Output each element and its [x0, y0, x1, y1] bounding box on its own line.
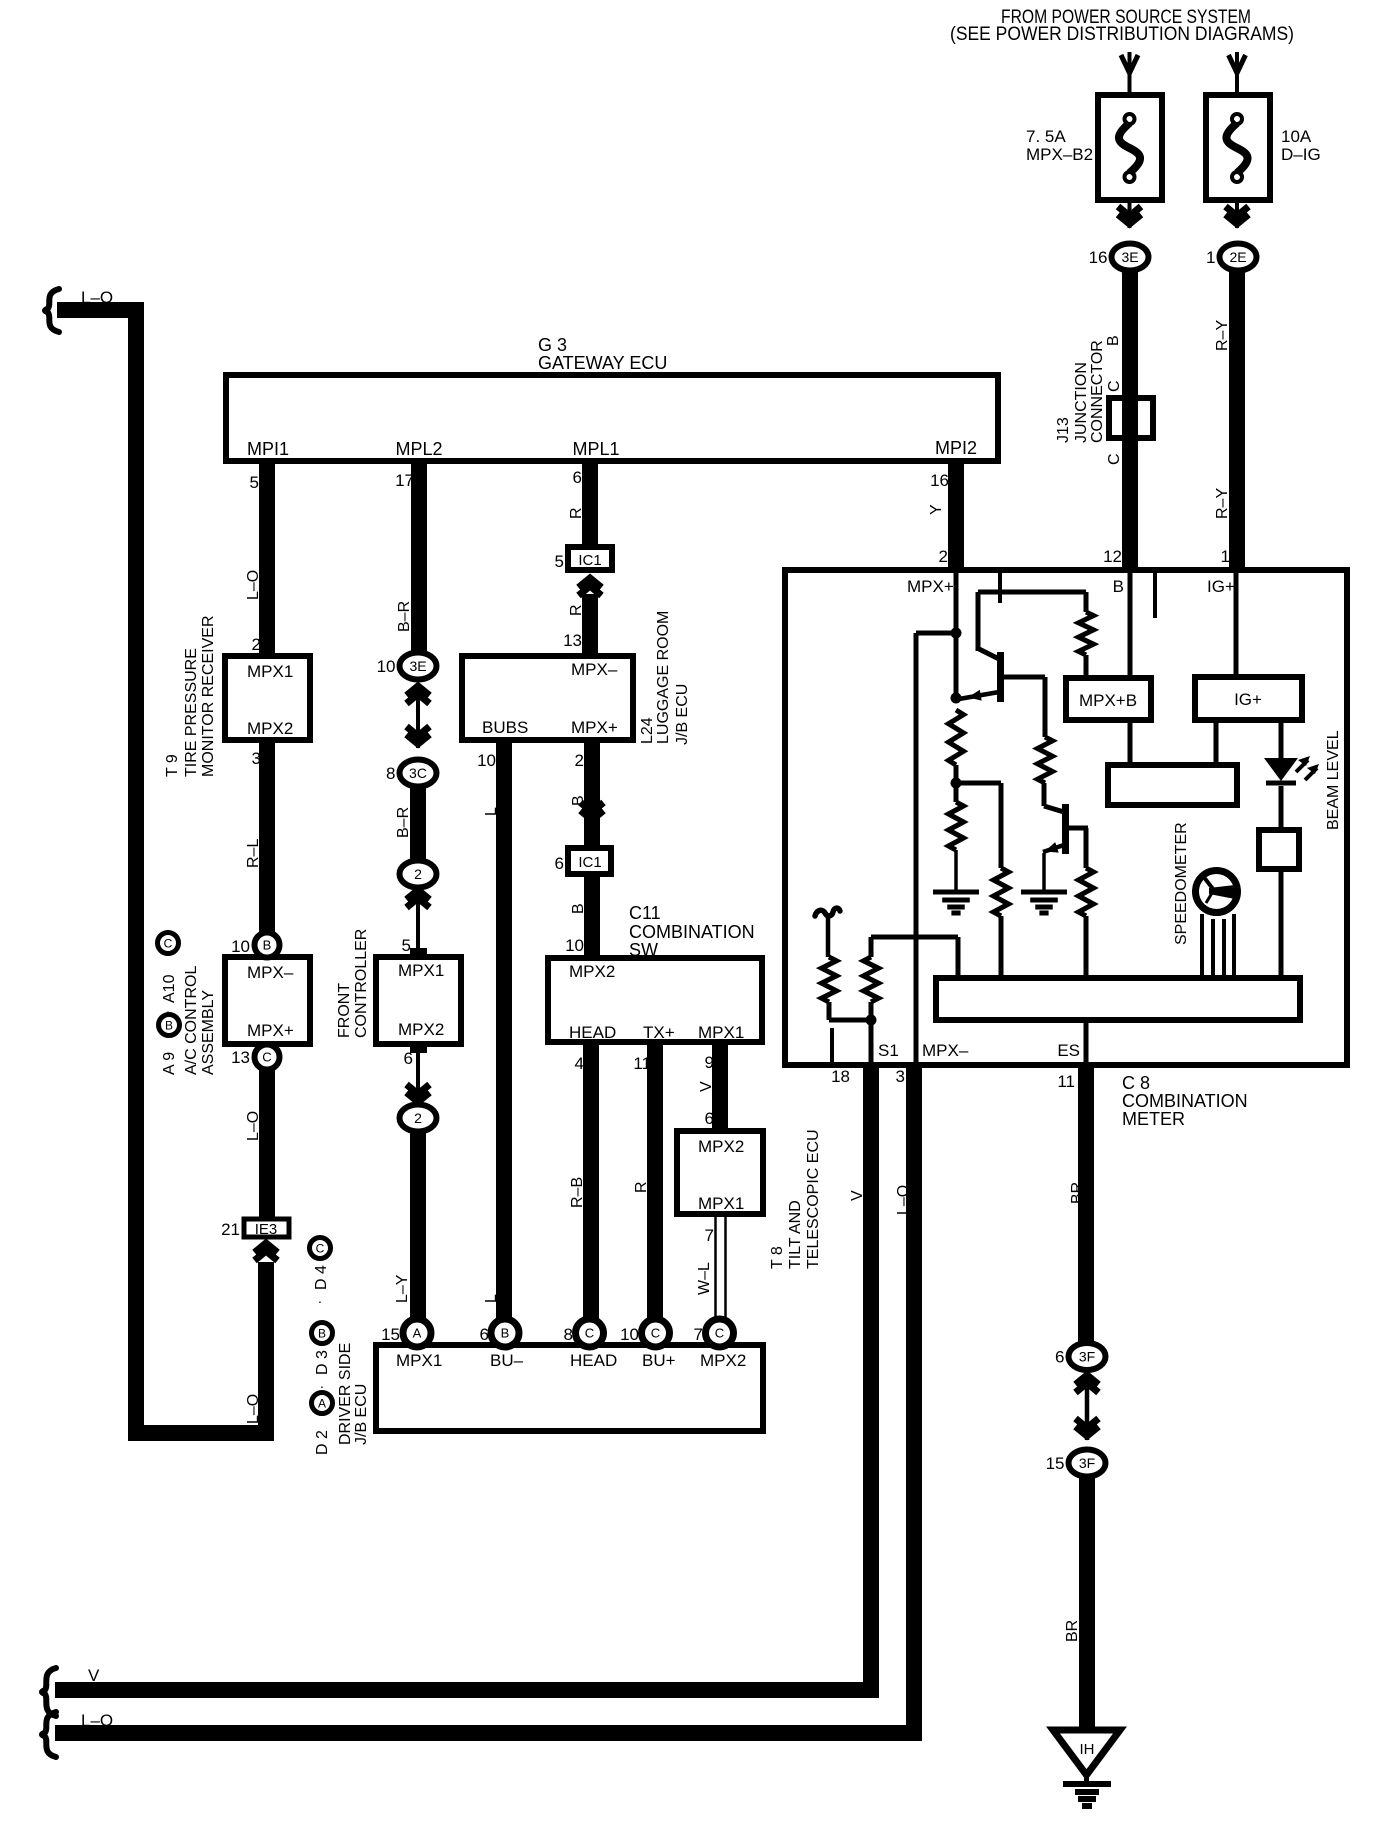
resistor Re [1038, 737, 1053, 783]
link front controller to connector 2 (lower) [416, 1044, 420, 1103]
svg-text:3F: 3F [1079, 1349, 1095, 1365]
wire L-O A/C to IE3 [259, 1052, 275, 1219]
svg-text:J/B ECU: J/B ECU [353, 1384, 370, 1445]
svg-text:V: V [88, 1666, 100, 1685]
svg-text:10: 10 [477, 751, 496, 770]
svg-text:(SEE POWER DISTRIBUTION DIAGRA: (SEE POWER DISTRIBUTION DIAGRAMS) [950, 24, 1294, 45]
tilt and telescopic ECU T8 box [677, 1131, 763, 1214]
connector 2 (lower) [400, 1105, 437, 1132]
svg-text:B: B [570, 903, 587, 914]
svg-text:J13: J13 [1055, 417, 1072, 443]
svg-text:MPX2: MPX2 [569, 962, 615, 981]
svg-text:5: 5 [402, 936, 411, 955]
svg-text:T 9: T 9 [164, 754, 181, 777]
svg-text:MPX1: MPX1 [398, 961, 444, 980]
connector 6 (B) [491, 1319, 519, 1347]
label D2(A) D3(B) D4(C) column [310, 1238, 331, 1259]
svg-text:SPEEDOMETER: SPEEDOMETER [1173, 822, 1190, 945]
svg-text:3E: 3E [1121, 249, 1138, 265]
svg-text:L–O: L–O [245, 570, 262, 600]
wire gateway MPL2 to connector 3E [411, 461, 427, 655]
resistor Rg [1079, 612, 1094, 655]
arrow + link 3E to 3C [407, 686, 430, 696]
svg-text:COMBINATION: COMBINATION [1122, 1091, 1248, 1111]
svg-text:T 8: T 8 [769, 1246, 786, 1269]
svg-text:C: C [585, 1326, 594, 1341]
svg-text:D 3: D 3 [314, 1350, 331, 1375]
svg-text:L–Y: L–Y [394, 1274, 411, 1303]
wire BR from ES to ground [1078, 1065, 1094, 1346]
svg-text:G 3: G 3 [538, 335, 567, 355]
wire L-O gateway MPI1 to tire pressure receiver [259, 461, 275, 658]
svg-text:2: 2 [575, 751, 584, 770]
feed arrow to fuse MPX-B2 [1128, 52, 1132, 95]
meter internal: MPX+ line [954, 573, 959, 701]
svg-text:MPX2: MPX2 [700, 1351, 746, 1370]
svg-text:3: 3 [896, 1067, 905, 1086]
wire L from BUBS to driver side BU- [496, 740, 512, 1322]
svg-text:5: 5 [555, 552, 564, 571]
svg-text:.: . [318, 1290, 322, 1306]
small box under LED [1259, 830, 1299, 869]
luggage room J/B ECU L24 box [462, 656, 633, 740]
svg-text:10: 10 [620, 1325, 639, 1344]
ES line [1084, 1020, 1089, 1062]
svg-text:BEAM LEVEL: BEAM LEVEL [1325, 730, 1342, 830]
connector 6 (3F) [1069, 1343, 1106, 1370]
svg-text:MPI1: MPI1 [247, 439, 289, 459]
svg-text:GATEWAY ECU: GATEWAY ECU [538, 353, 667, 373]
svg-text:D–IG: D–IG [1281, 145, 1321, 164]
resistor Rc [949, 802, 964, 850]
wire V from S1 to bus [55, 1065, 871, 1690]
svg-text:ASSEMBLY: ASSEMBLY [200, 990, 217, 1075]
svg-text:MPX+: MPX+ [247, 1021, 294, 1040]
wire W-L double line to driver side MPX2 [714, 1214, 717, 1322]
svg-text:IH: IH [1080, 1741, 1095, 1758]
resistor Ra [949, 710, 964, 765]
connector 8 (C) [576, 1319, 604, 1347]
svg-text:V: V [849, 1190, 866, 1201]
wire B from J13 to combination meter pin 12 [1122, 438, 1138, 567]
fuse 7.5A MPX-B2 [1098, 95, 1162, 200]
svg-text:18: 18 [831, 1067, 850, 1086]
svg-text:10: 10 [377, 657, 396, 676]
ground IH [1053, 1730, 1120, 1775]
svg-text:4: 4 [575, 1054, 584, 1073]
bottom braces [42, 1668, 56, 1716]
internal MPX- line [914, 633, 919, 1062]
svg-text:A/C CONTROL: A/C CONTROL [183, 966, 200, 1075]
S1 network: hook [815, 908, 840, 916]
svg-text:B–R: B–R [396, 601, 413, 632]
svg-text:B: B [1105, 335, 1122, 346]
svg-text:17: 17 [395, 471, 414, 490]
svg-text:9: 9 [705, 1053, 714, 1072]
svg-text:L–O: L–O [895, 1185, 912, 1215]
svg-text:JUNCTION: JUNCTION [1073, 362, 1090, 443]
node junction A [951, 628, 962, 639]
resistor Ri [822, 957, 837, 1002]
svg-text:L: L [483, 807, 500, 816]
svg-text:1: 1 [1221, 547, 1230, 566]
svg-text:MPX+B: MPX+B [1079, 691, 1137, 710]
svg-text:8: 8 [564, 1325, 573, 1344]
svg-text:R: R [568, 507, 585, 519]
svg-text:METER: METER [1122, 1109, 1185, 1129]
svg-text:FRONT: FRONT [336, 983, 353, 1038]
connector 15 (A) [403, 1319, 431, 1347]
svg-text:1: 1 [1206, 248, 1215, 267]
svg-text:10: 10 [565, 936, 584, 955]
node junction D [866, 1015, 877, 1026]
wire R-Y from 2E to combination meter pin 1 [1229, 270, 1245, 567]
resistor Rf [1079, 868, 1094, 916]
transistor Q1 [997, 652, 1004, 702]
svg-text:2: 2 [414, 866, 422, 882]
svg-text:HEAD: HEAD [569, 1023, 616, 1042]
combination switch C11 box [548, 958, 762, 1042]
svg-text:R–Y: R–Y [1214, 320, 1231, 351]
svg-text:3E: 3E [409, 658, 426, 674]
svg-text:6: 6 [480, 1325, 489, 1344]
wide rect block [1108, 765, 1237, 805]
svg-text:W–L: W–L [696, 1262, 713, 1295]
svg-text:B: B [263, 938, 272, 953]
svg-text:V: V [698, 1081, 715, 1092]
svg-text:TX+: TX+ [643, 1023, 675, 1042]
wire BR 3F to ground IH [1079, 1476, 1095, 1731]
svg-text:C: C [164, 936, 173, 950]
svg-text:2: 2 [252, 635, 261, 654]
transistor Q2 [1062, 804, 1069, 854]
svg-text:2: 2 [939, 547, 948, 566]
wire R-L T9 to A/C control assembly [259, 740, 275, 950]
svg-text:16: 16 [930, 471, 949, 490]
terminal ticks [998, 573, 1002, 603]
svg-text:Y: Y [928, 504, 945, 515]
feed arrow to fuse D-IG [1235, 52, 1239, 95]
svg-text:IE3: IE3 [255, 1221, 278, 1238]
svg-text:COMBINATION: COMBINATION [629, 922, 755, 942]
wire V MPX1 to tilt and telescopic ECU [712, 1042, 728, 1132]
connector 16 (3E) [1112, 244, 1149, 271]
svg-text:MPX2: MPX2 [698, 1137, 744, 1156]
svg-text:MPL1: MPL1 [572, 439, 619, 459]
connector 21 IE3 [244, 1219, 289, 1237]
connector 2 (upper) [400, 861, 437, 888]
resistor Rh [869, 1002, 874, 1020]
svg-text:A 9: A 9 [161, 1052, 178, 1075]
svg-text:J/B ECU: J/B ECU [674, 684, 691, 745]
svg-text:6: 6 [705, 1109, 714, 1128]
svg-text:ES: ES [1057, 1041, 1080, 1060]
svg-text:7. 5A: 7. 5A [1026, 127, 1066, 146]
svg-text:DRIVER SIDE: DRIVER SIDE [337, 1343, 354, 1445]
svg-text:MPX2: MPX2 [398, 1020, 444, 1039]
wire Y gateway MPI2 to meter MPX+ [948, 461, 964, 567]
top-left brace [45, 289, 59, 332]
svg-text:A: A [413, 1326, 422, 1341]
svg-text:12: 12 [1103, 547, 1122, 566]
svg-text:TELESCOPIC ECU: TELESCOPIC ECU [805, 1129, 822, 1269]
svg-text:L–O: L–O [81, 1711, 113, 1730]
svg-text:6: 6 [573, 468, 582, 487]
svg-text:C: C [715, 1326, 724, 1341]
svg-text:A10: A10 [161, 974, 178, 1003]
svg-text:8: 8 [386, 764, 395, 783]
circled letters A9 (B) , A10 (C) column [158, 933, 179, 954]
svg-text:TILT AND: TILT AND [787, 1200, 804, 1269]
svg-text:C: C [651, 1326, 660, 1341]
svg-text:3: 3 [252, 749, 261, 768]
arrow into IE3 [255, 1243, 278, 1253]
svg-text:IC1: IC1 [578, 854, 601, 871]
svg-text:MPX1: MPX1 [247, 662, 293, 681]
svg-text:MPX–B2: MPX–B2 [1026, 145, 1093, 164]
svg-text:3F: 3F [1079, 1455, 1095, 1471]
svg-text:TIRE PRESSURE: TIRE PRESSURE [183, 648, 200, 777]
svg-text:L–O: L–O [245, 1111, 262, 1141]
arrow + link to front controller [407, 890, 430, 900]
MPX+B block [1128, 573, 1133, 678]
svg-text:L: L [483, 1294, 500, 1303]
svg-text:BUBS: BUBS [482, 718, 528, 737]
wire L-O left loop [57, 310, 266, 1433]
svg-text:L24: L24 [639, 717, 656, 744]
wire B-R 3C to connector 2 [410, 786, 426, 862]
svg-text:R–L: R–L [245, 839, 262, 868]
A/C control assembly box [225, 957, 310, 1044]
svg-text:C: C [1106, 380, 1123, 392]
svg-text:2: 2 [414, 1110, 422, 1126]
svg-text:LUGGAGE ROOM: LUGGAGE ROOM [655, 611, 672, 744]
svg-text:MPI2: MPI2 [935, 438, 977, 458]
svg-text:13: 13 [563, 631, 582, 650]
connector 10 (3E) [400, 653, 437, 680]
connector 5 IC1 [568, 547, 612, 570]
gateway ECU G3 box [226, 375, 998, 461]
svg-text:MPX2: MPX2 [247, 719, 293, 738]
svg-text:6: 6 [404, 1049, 413, 1068]
svg-text:21: 21 [221, 1220, 240, 1239]
connector 7 (C) [706, 1319, 734, 1347]
fuse 10A D-IG [1206, 95, 1270, 200]
tire pressure monitor receiver T9 box [225, 656, 310, 740]
svg-text:BU+: BU+ [642, 1351, 676, 1370]
svg-text:A: A [318, 1396, 326, 1410]
svg-text:10A: 10A [1281, 127, 1312, 146]
resistor Rb [994, 868, 1009, 916]
svg-text:MPX–: MPX– [922, 1041, 969, 1060]
svg-text:BU–: BU– [490, 1351, 524, 1370]
svg-text:C11: C11 [629, 903, 661, 923]
connector 6 IC1 lower [568, 848, 611, 874]
svg-text:MPX+: MPX+ [571, 718, 618, 737]
connector 1 (2E) [1220, 244, 1257, 271]
svg-text:HEAD: HEAD [570, 1351, 617, 1370]
svg-text:IC1: IC1 [578, 552, 601, 569]
svg-text:16: 16 [1089, 248, 1108, 267]
svg-text:15: 15 [381, 1325, 400, 1344]
ground g1 [933, 890, 979, 895]
svg-text:7: 7 [705, 1226, 714, 1245]
svg-text:B: B [1113, 577, 1124, 596]
svg-text:R: R [568, 604, 585, 616]
svg-text:B: B [165, 1018, 173, 1032]
driver side J/B ECU box [376, 1345, 763, 1431]
svg-text:10: 10 [231, 937, 250, 956]
connector 8 (3C) [400, 760, 437, 787]
svg-text:5: 5 [250, 473, 259, 492]
node junction B (emitter) [951, 693, 962, 704]
connector 15 (3F) [1069, 1450, 1106, 1477]
svg-text:MPX1: MPX1 [396, 1351, 442, 1370]
svg-text:B: B [501, 1326, 510, 1341]
IG+ block [1234, 573, 1239, 677]
LED beam level [1264, 758, 1298, 781]
emitter to ground g2 [1042, 853, 1046, 890]
svg-text:R–Y: R–Y [1214, 488, 1231, 519]
svg-text:C: C [1106, 453, 1123, 465]
wire L-O from MPX- to bus [55, 1065, 914, 1733]
svg-text:6: 6 [555, 854, 564, 873]
wire B IC1 to combination SW [584, 874, 600, 958]
svg-text:R: R [633, 1181, 650, 1193]
svg-text:CONTROLLER: CONTROLLER [353, 929, 370, 1038]
svg-text:R–B: R–B [569, 1177, 586, 1208]
svg-text:6: 6 [1055, 1348, 1064, 1367]
svg-text:.: . [320, 1375, 324, 1391]
ground g2 [1021, 890, 1067, 895]
front controller box [376, 957, 461, 1044]
svg-text:3C: 3C [409, 765, 427, 781]
svg-text:MPX+: MPX+ [907, 577, 954, 596]
arrows IC1 to luggage room J/B [579, 578, 602, 588]
svg-text:MONITOR RECEIVER: MONITOR RECEIVER [200, 616, 217, 778]
svg-text:IG+: IG+ [1207, 577, 1235, 596]
svg-text:13: 13 [231, 1048, 250, 1067]
svg-text:L–O: L–O [245, 1394, 262, 1424]
long bottom block [936, 978, 1300, 1020]
junction connector J13 [1109, 398, 1153, 438]
svg-text:C 8: C 8 [1122, 1073, 1150, 1093]
svg-text:B–R: B–R [395, 807, 412, 838]
svg-text:7: 7 [694, 1325, 703, 1344]
wire fuse MPX-B2 to connector 3E [1128, 200, 1132, 228]
svg-text:MPX–: MPX– [247, 963, 294, 982]
connector 10 (C) [642, 1319, 670, 1347]
wire gateway MPL1 to IC1 [582, 461, 598, 547]
svg-text:11: 11 [1057, 1072, 1075, 1091]
connector pin 10 (B) [255, 933, 280, 958]
svg-text:S1: S1 [878, 1041, 899, 1060]
svg-text:MPX1: MPX1 [698, 1194, 744, 1213]
svg-text:MPL2: MPL2 [395, 439, 442, 459]
svg-text:D 2: D 2 [314, 1430, 331, 1455]
combination meter C8 box [785, 570, 1347, 1065]
svg-text:B: B [318, 1326, 326, 1340]
svg-text:BR: BR [1064, 1620, 1081, 1642]
wire R TX+ to driver side BU+ [647, 1042, 663, 1322]
svg-text:IG+: IG+ [1234, 690, 1262, 709]
node junction C [951, 778, 962, 789]
wire L-Y to driver side J/B ECU pin 15 [410, 1131, 426, 1322]
connector pin 13 (C) [255, 1045, 280, 1070]
wire fuse D-IG to connector 2E [1235, 200, 1239, 228]
svg-text:15: 15 [1046, 1454, 1065, 1473]
wire R-B HEAD to driver side HEAD [583, 1042, 599, 1322]
wire B from 3E to J13 junction connector [1122, 270, 1138, 398]
collector top run [978, 590, 1086, 595]
svg-text:11: 11 [633, 1054, 651, 1073]
svg-text:MPX–: MPX– [571, 660, 618, 679]
wire B MPX+ to IC1 lower [584, 740, 600, 848]
svg-text:2E: 2E [1229, 249, 1246, 265]
svg-text:BR: BR [1069, 1182, 1086, 1204]
svg-text:CONNECTOR: CONNECTOR [1089, 340, 1106, 443]
svg-text:MPX1: MPX1 [698, 1023, 744, 1042]
S1 line to terminal [869, 1020, 874, 1062]
svg-text:C: C [262, 1050, 271, 1065]
svg-text:D 4: D 4 [313, 1265, 330, 1290]
svg-text:C: C [316, 1241, 325, 1255]
